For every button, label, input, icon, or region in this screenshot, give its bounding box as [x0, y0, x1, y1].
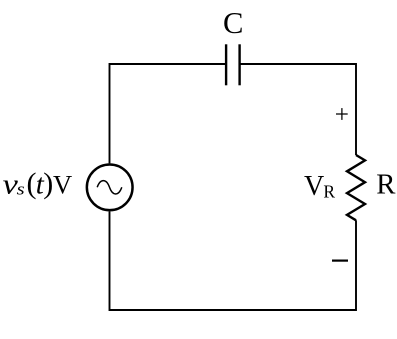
svg-text:R: R	[376, 168, 396, 200]
wire top-left segment	[110, 64, 227, 163]
wire top-right segment	[240, 64, 356, 155]
svg-text:R: R	[323, 182, 335, 202]
svg-text:): )	[43, 167, 53, 200]
source V1 sine symbol	[97, 181, 122, 194]
svg-text:C: C	[223, 6, 243, 40]
capacitor C1 right plate	[238, 44, 240, 85]
minus sign	[332, 260, 348, 262]
svg-text:V: V	[304, 171, 324, 202]
capacitor C1 left plate	[225, 44, 227, 85]
source label vs(t)V	[3, 167, 73, 200]
resistor R1 zigzag	[347, 155, 365, 220]
source V1 circle	[87, 164, 133, 210]
svg-text:s: s	[17, 180, 25, 199]
svg-text:V: V	[53, 169, 72, 199]
plus sign	[336, 108, 348, 120]
voltage label VR	[304, 171, 335, 202]
wire bottom segment	[110, 211, 357, 310]
